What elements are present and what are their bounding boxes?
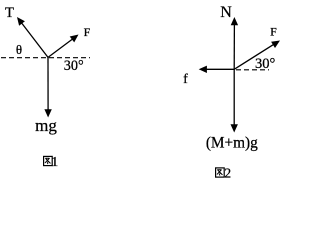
- svg-text:F: F: [84, 25, 91, 39]
- svg-text:1: 1: [51, 155, 58, 170]
- svg-text:θ: θ: [16, 42, 22, 57]
- svg-text:30°: 30°: [64, 58, 84, 74]
- svg-text:2: 2: [224, 166, 231, 181]
- svg-text:f: f: [183, 72, 188, 87]
- svg-text:mg: mg: [35, 116, 57, 135]
- svg-text:F: F: [270, 25, 277, 39]
- svg-text:N: N: [220, 4, 232, 21]
- svg-text:30°: 30°: [255, 56, 276, 72]
- svg-text:(M+m)g: (M+m)g: [206, 134, 258, 151]
- svg-text:T: T: [5, 5, 14, 21]
